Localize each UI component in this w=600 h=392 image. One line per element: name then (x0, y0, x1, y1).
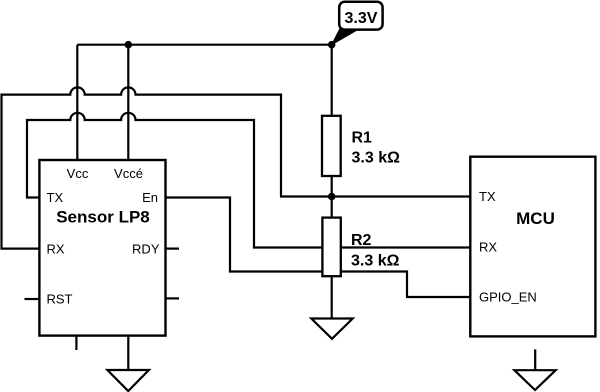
wire: R1 bottom lead (331, 176, 333, 197)
svg-text:Vccé: Vccé (114, 166, 143, 181)
ground (MCU) (514, 370, 555, 390)
ground (sensor) (107, 370, 148, 391)
wire: sensor TX net to MCU RX (row y=118.5 with hops, down at x=254) (27, 113, 470, 248)
wire: R2 top lead (331, 197, 333, 218)
svg-text:R1: R1 (352, 130, 373, 147)
svg-text:3.3V: 3.3V (345, 10, 378, 27)
svg-text:MCU: MCU (516, 209, 555, 228)
ground (below R2) (311, 319, 352, 339)
svg-text:3.3 kΩ: 3.3 kΩ (351, 252, 400, 269)
resistor R2 (322, 218, 399, 277)
pin stub: RDY (166, 248, 180, 250)
svg-text:R2: R2 (351, 232, 372, 249)
wire: 3.3V to R1 top (331, 45, 333, 116)
power flag 3.3V (332, 2, 383, 45)
wire: R2 bottom lead (331, 276, 333, 318)
svg-text:Sensor LP8: Sensor LP8 (56, 208, 150, 227)
wire: sensor RX net to MCU TX (row y=94.5 with hops, down at x=281) (2, 87, 471, 248)
node: junction dot at Vcce tap (125, 41, 133, 49)
svg-text:RX: RX (47, 241, 65, 256)
svg-text:3.3 kΩ: 3.3 kΩ (352, 150, 401, 167)
svg-text:TX: TX (479, 189, 496, 204)
node: junction dot R1/R2/TX net (328, 193, 336, 201)
MCU box (470, 157, 595, 337)
wire: Vcce pin vertical (127, 45, 129, 160)
node: junction dot under 3.3V flag (328, 41, 336, 49)
wire: sensor ground lead (127, 336, 129, 370)
svg-text:En: En (142, 190, 158, 205)
wire: MCU ground stub (534, 349, 536, 370)
svg-text:TX: TX (47, 190, 64, 205)
svg-text:RDY: RDY (132, 241, 160, 256)
wire: sensor En to MCU GPIO_EN (166, 198, 471, 298)
pin stub: sensor right row 3 (166, 297, 180, 299)
resistor R1 (322, 116, 400, 176)
svg-text:RX: RX (479, 240, 497, 255)
pin stub: sensor bottom (75, 336, 77, 350)
svg-text:GPIO_EN: GPIO_EN (479, 289, 537, 304)
sensor box Sensor LP8 (39, 160, 165, 336)
pin stub: RST (25, 298, 40, 300)
wire: 3.3V power rail top (77, 44, 331, 46)
wire: Vcc pin vertical (76, 45, 78, 160)
svg-text:Vcc: Vcc (67, 166, 89, 181)
svg-text:RST: RST (47, 292, 73, 307)
